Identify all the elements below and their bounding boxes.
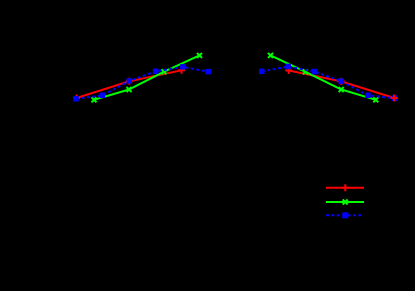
legend entry 2: green sample line [326,201,364,203]
left plot: green x markers [92,53,203,102]
legend entry 3: blue dashed sample line [326,214,364,216]
legend entry 1: red sample line [326,187,364,189]
left plot: red series line [77,70,182,98]
right plot: blue dashed series line [262,67,395,99]
legend entry 1: red + marker [342,184,349,191]
left plot: green series line [94,55,200,99]
legend entry 3: blue square marker [342,212,348,218]
right plot: red + markers [285,67,398,102]
left plot: blue dashed series line [76,67,208,99]
right plot: red + marker over final blue square [391,95,398,102]
right plot: green series line [271,55,376,99]
right plot: red series line [289,71,395,99]
left plot: red + markers [73,67,185,102]
right plot: green x markers [268,53,378,102]
right plot: blue square markers [259,64,397,101]
left plot: blue square markers [73,64,211,101]
legend entry 2: green x marker [343,200,348,205]
